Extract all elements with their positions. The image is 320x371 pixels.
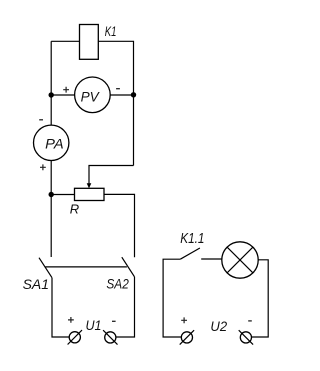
rheostat wiper arrowhead (87, 183, 92, 188)
svg-text:SA1: SA1 (23, 276, 49, 292)
polarity plus above U1+ (68, 317, 74, 323)
terminal U2 minus (240, 332, 251, 343)
switch SA2 blade (122, 257, 135, 277)
wire SA1 bottom (52, 278, 69, 337)
wire PV left (51, 94, 74, 96)
switch K1.1 blade (180, 248, 200, 259)
node junction left of PV (49, 92, 54, 97)
svg-text:K1: K1 (105, 23, 117, 39)
voltmeter PV (75, 77, 111, 113)
resistor R body (75, 188, 105, 200)
wire top-left horizontal to K1 (51, 40, 79, 42)
wire lamp right down to U2 minus (252, 260, 268, 337)
polarity minus above PA (39, 119, 43, 121)
wire PV right (110, 94, 133, 96)
svg-text:PA: PA (45, 135, 64, 151)
polarity minus right of PV (116, 88, 120, 90)
terminal U1 minus (105, 332, 116, 343)
wire R right down to SA2 (104, 194, 135, 257)
wire right-circuit left rail (163, 259, 181, 337)
wire left rail upper (50, 41, 52, 125)
wire U1 minus to right rail up to SA2 blade (116, 277, 134, 337)
polarity plus below PA (40, 164, 46, 170)
node junction at R left (49, 192, 54, 197)
terminal U2 plus (181, 332, 192, 343)
wire K1 right to top-right corner and down right rail (98, 41, 133, 165)
lamp HL (222, 242, 258, 278)
wire rheostat wiper branch (89, 166, 134, 185)
wire R left (51, 194, 74, 196)
svg-text:SA2: SA2 (106, 276, 129, 292)
polarity minus above U1- (112, 320, 116, 322)
polarity minus above U2- (248, 320, 252, 322)
svg-text:K1.1: K1.1 (180, 231, 204, 247)
relay coil K1 (80, 25, 99, 60)
terminal U1 plus (69, 332, 80, 343)
wire switch link SA1-SA2 (45, 266, 127, 268)
polarity plus above U2+ (181, 317, 187, 323)
svg-text:R: R (70, 201, 79, 216)
svg-text:PV: PV (81, 88, 101, 104)
svg-text:U2: U2 (210, 318, 227, 334)
node junction right of PV (131, 92, 136, 97)
svg-text:U1: U1 (86, 317, 102, 333)
polarity plus left of PV (63, 87, 69, 93)
wire left rail middle (PA bottom to SA1) (50, 161, 52, 258)
wire K1.1 to lamp (201, 258, 222, 260)
ammeter PA (34, 125, 69, 160)
switch SA1 blade (39, 258, 52, 278)
